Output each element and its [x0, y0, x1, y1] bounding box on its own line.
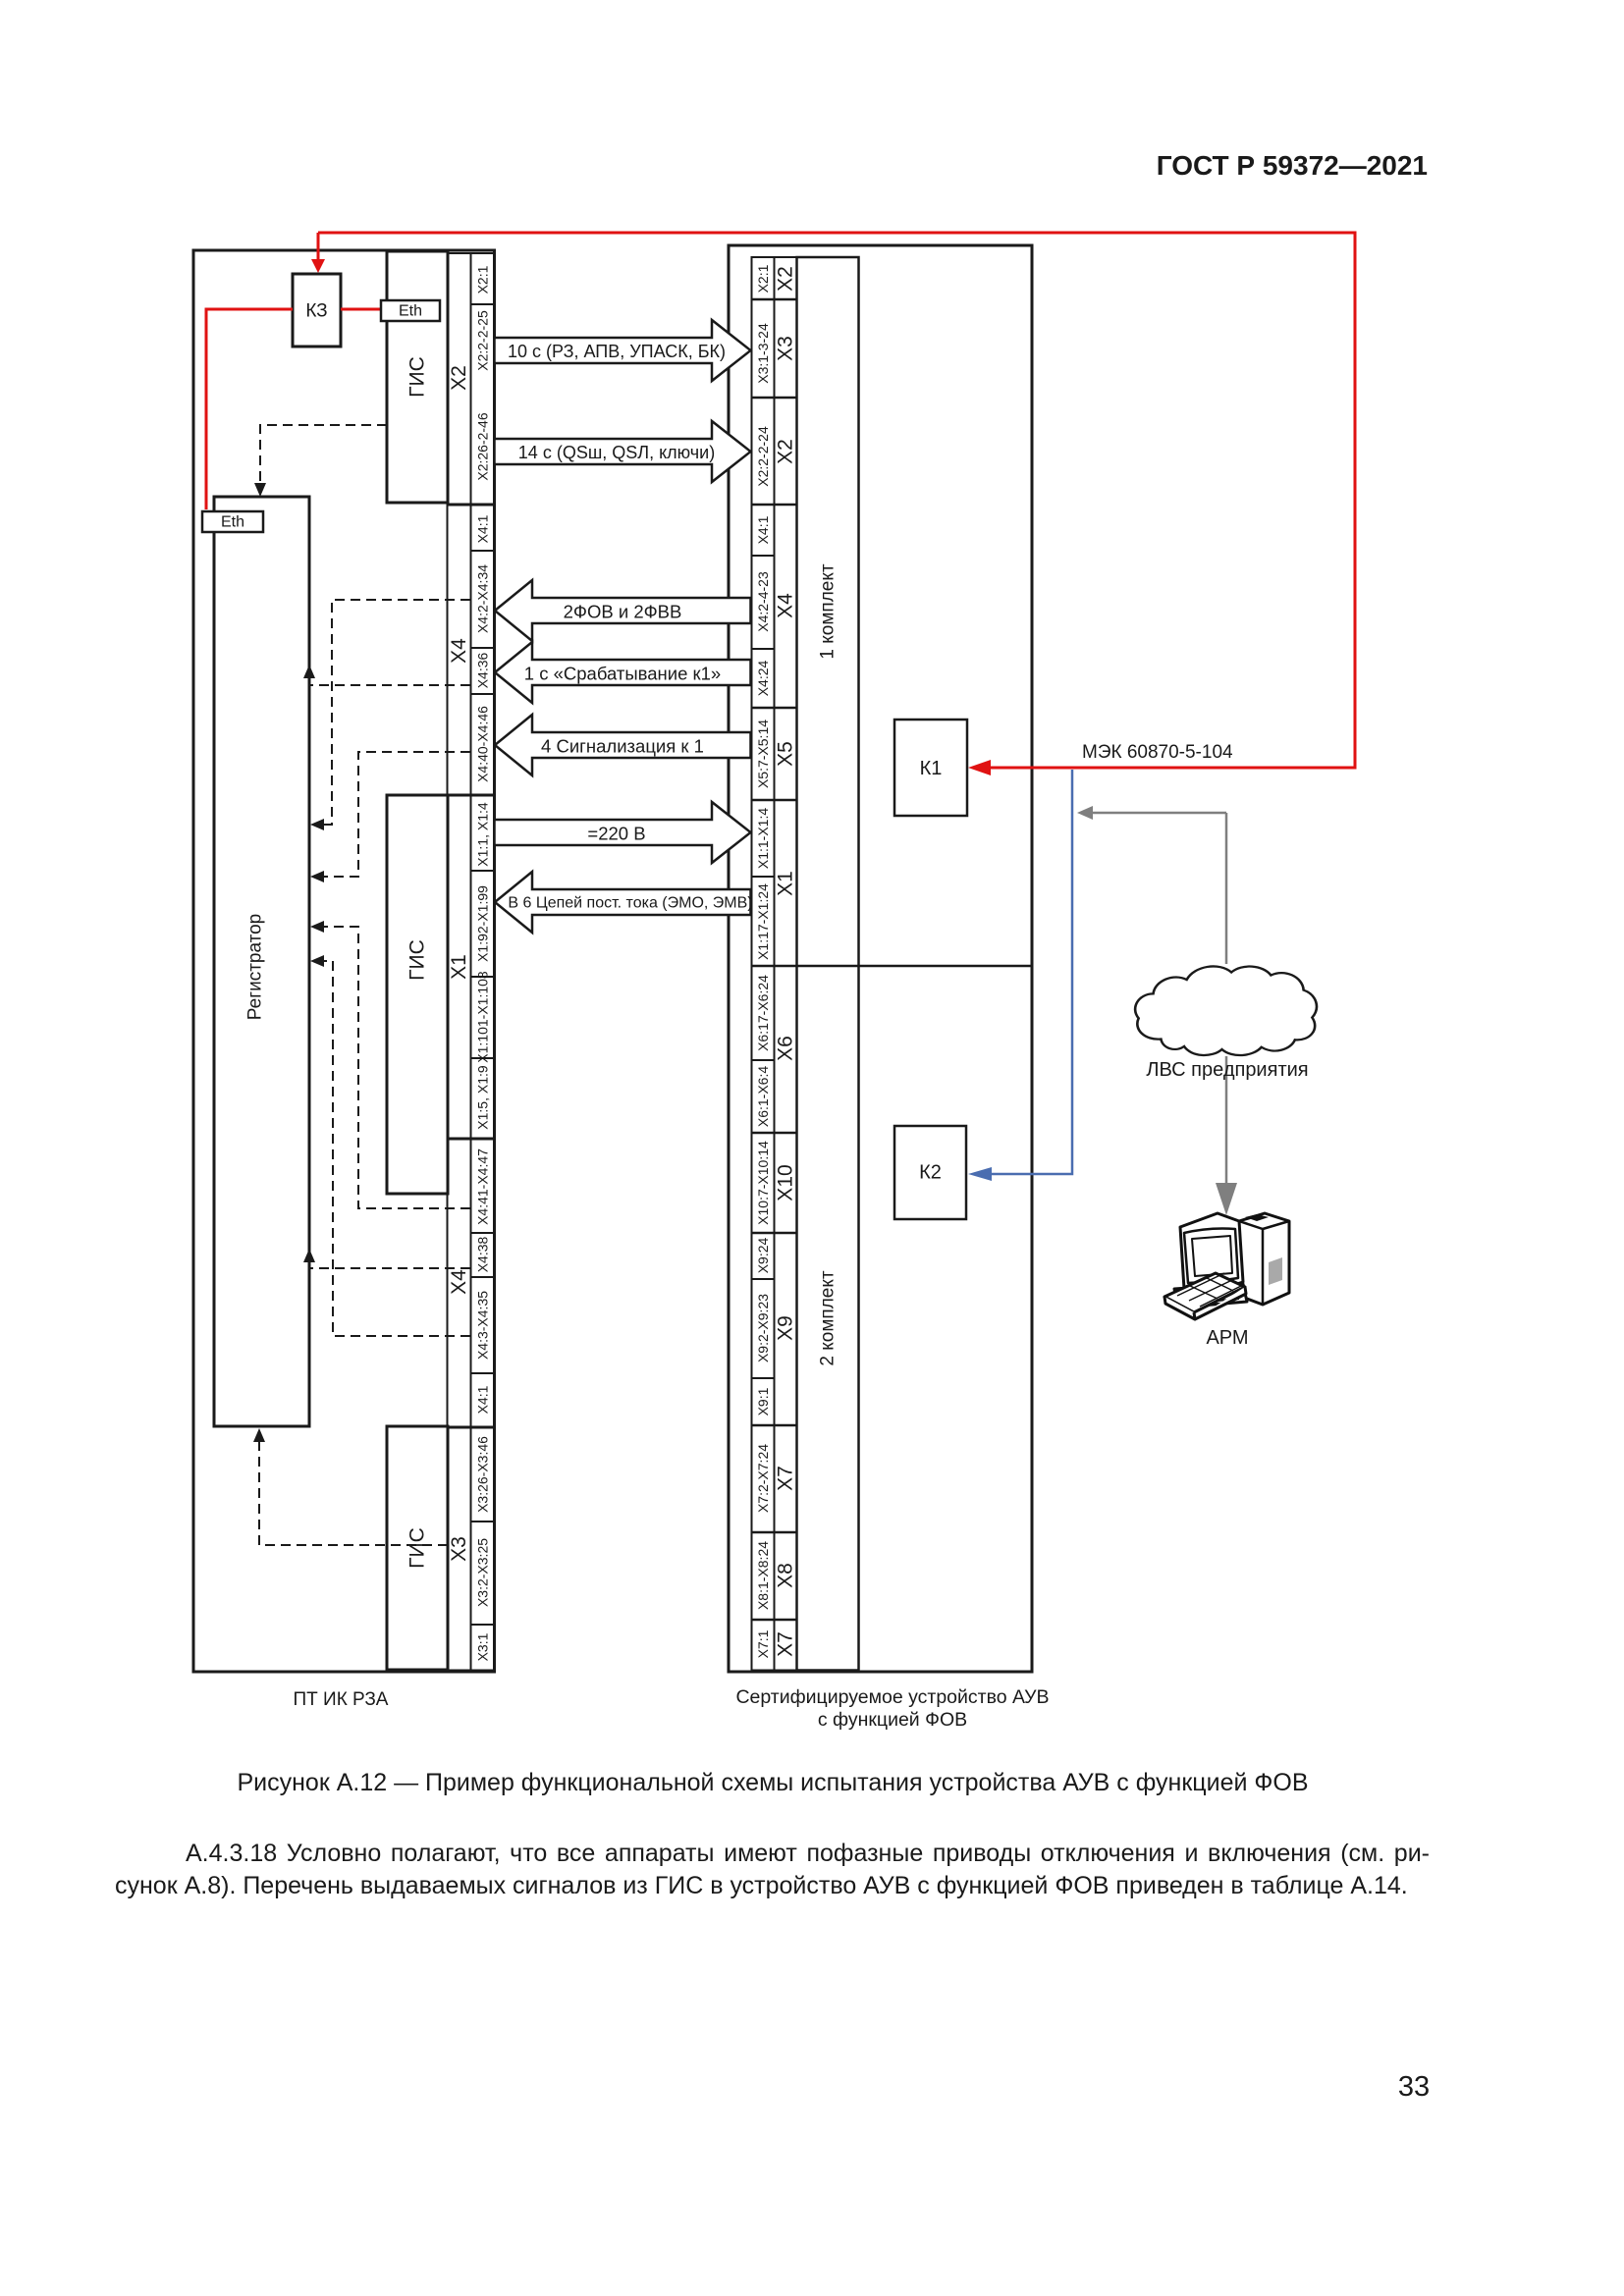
left connector-name column — [448, 253, 471, 1671]
svg-text:ГОСТ Р 59372—2021: ГОСТ Р 59372—2021 — [1157, 150, 1428, 181]
svg-text:X6: X6 — [775, 1036, 797, 1061]
blue wire to K2 — [992, 770, 1072, 1174]
svg-text:X2:26-2-46: X2:26-2-46 — [475, 412, 491, 480]
GIS X2 box — [387, 251, 448, 503]
svg-text:АРМ: АРМ — [1206, 1327, 1248, 1349]
arrow 10s RZ APV UPASK BK — [495, 320, 751, 381]
svg-text:X9:2-X9:23: X9:2-X9:23 — [755, 1294, 771, 1362]
svg-text:X1: X1 — [775, 871, 797, 896]
svg-text:X3: X3 — [448, 1536, 470, 1562]
svg-text:X4: X4 — [775, 593, 797, 618]
dashed wire X4:41-X4:47 to Registrator — [324, 927, 470, 1208]
svg-text:X4:2-4-23: X4:2-4-23 — [755, 571, 771, 632]
svg-text:X4:40-X4:46: X4:40-X4:46 — [475, 706, 491, 782]
svg-text:14 с (QSш, QSЛ, ключи): 14 с (QSш, QSЛ, ключи) — [518, 443, 715, 462]
svg-text:X7:2-X7:24: X7:2-X7:24 — [755, 1444, 771, 1513]
svg-text:X2: X2 — [448, 365, 470, 391]
svg-text:X3: X3 — [775, 336, 797, 361]
right pin column — [752, 257, 775, 1671]
svg-text:X4:1: X4:1 — [475, 514, 491, 543]
svg-text:Сертифицируемое устройство АУВ: Сертифицируемое устройство АУВ — [735, 1686, 1049, 1708]
komplekt column — [797, 257, 859, 1671]
red wire from top into KZ — [317, 233, 320, 261]
svg-text:X2: X2 — [775, 439, 797, 464]
svg-text:X9: X9 — [775, 1315, 797, 1341]
arrow =220 V — [495, 802, 751, 863]
arrow V 6 tsepei post toka — [495, 872, 751, 933]
svg-text:X1: X1 — [448, 954, 470, 980]
svg-text:с функцией ФОВ: с функцией ФОВ — [818, 1709, 967, 1731]
svg-text:X6:17-X6:24: X6:17-X6:24 — [755, 975, 771, 1051]
svg-text:4 Сигнализация к 1: 4 Сигнализация к 1 — [541, 736, 704, 757]
svg-text:X4:38: X4:38 — [475, 1236, 491, 1272]
svg-text:X4:36: X4:36 — [475, 652, 491, 688]
left pin column — [471, 253, 495, 1671]
svg-text:X5:7-X5:14: X5:7-X5:14 — [755, 720, 771, 788]
svg-text:X3:26-X3:46: X3:26-X3:46 — [475, 1436, 491, 1513]
right connector-name column — [775, 257, 797, 1671]
svg-text:X4:2-X4:34: X4:2-X4:34 — [475, 564, 491, 633]
left group divider lines — [448, 504, 495, 507]
svg-text:Eth: Eth — [399, 303, 422, 320]
arrow 14s QS — [495, 421, 751, 482]
dashed wire X4:38 to Registrator (up arrow) — [309, 1267, 470, 1269]
svg-text:X1:17-X1:24: X1:17-X1:24 — [755, 883, 771, 960]
KZ box — [293, 274, 341, 347]
svg-text:X3:1-3-24: X3:1-3-24 — [755, 323, 771, 384]
arrow 1s Srabatyvanie k1 — [495, 642, 751, 703]
arrow 4 Signalizaciya k 1 — [495, 715, 751, 775]
dashed wire X4:3-X4:35 to Registrator — [324, 961, 470, 1336]
GIS X1 box — [387, 795, 448, 1194]
svg-text:10 с (РЗ, АПВ, УПАСК, БК): 10 с (РЗ, АПВ, УПАСК, БК) — [508, 342, 726, 361]
svg-text:X7: X7 — [775, 1631, 797, 1657]
K2 box — [894, 1126, 966, 1219]
svg-text:В 6 Цепей пост. тока (ЭМО, ЭМВ: В 6 Цепей пост. тока (ЭМО, ЭМВ) — [508, 895, 752, 912]
svg-text:X4:24: X4:24 — [755, 660, 771, 696]
svg-text:X2:1: X2:1 — [755, 264, 771, 293]
svg-text:X7: X7 — [775, 1466, 797, 1491]
svg-text:X6:1-X6:4: X6:1-X6:4 — [755, 1066, 771, 1127]
svg-text:X1:1, X1:4: X1:1, X1:4 — [475, 802, 491, 867]
cloud LVS predpriyatiya — [1135, 966, 1317, 1055]
svg-text:ЛВС предприятия: ЛВС предприятия — [1146, 1059, 1308, 1081]
svg-text:X2:2-2-24: X2:2-2-24 — [755, 426, 771, 487]
svg-text:X9:1: X9:1 — [755, 1387, 771, 1415]
svg-text:X4: X4 — [448, 638, 470, 664]
svg-text:X4:1: X4:1 — [475, 1385, 491, 1414]
svg-text:ГИС: ГИС — [406, 1527, 429, 1569]
svg-text:1 комплект: 1 комплект — [818, 563, 839, 659]
svg-text:ГИС: ГИС — [406, 356, 429, 398]
GIS X3 box — [387, 1426, 448, 1670]
svg-text:33: 33 — [1398, 2071, 1430, 2103]
right group divider lines — [752, 298, 797, 301]
dashed wire X4:2-X4:34 to Registrator — [324, 600, 470, 825]
svg-text:X10:7-X10:14: X10:7-X10:14 — [755, 1141, 771, 1225]
svg-text:X2:2-2-25: X2:2-2-25 — [475, 310, 491, 371]
Eth box top — [381, 300, 440, 321]
svg-text:X4:41-X4:47: X4:41-X4:47 — [475, 1148, 491, 1225]
dashed wire X4:36 to Registrator (up arrow) — [309, 684, 470, 686]
arrow 2FOV i 2FVV — [495, 580, 751, 641]
svg-text:X1:101-X1:108: X1:101-X1:108 — [475, 971, 491, 1063]
red wire KZ left to Eth2 — [206, 309, 293, 509]
right device box (certified AUV device) — [729, 245, 1032, 1672]
svg-text:К1: К1 — [920, 758, 943, 779]
ARM computer icon — [1164, 1213, 1289, 1319]
svg-text:Eth: Eth — [221, 514, 244, 531]
svg-text:X2: X2 — [775, 266, 797, 292]
svg-text:X8:1-X8:24: X8:1-X8:24 — [755, 1541, 771, 1610]
dashed wire X4:40-X4:46 to Registrator — [324, 752, 470, 877]
svg-text:КЗ: КЗ — [305, 301, 327, 322]
left device box ПТ ИК РЗА — [193, 250, 495, 1672]
gray wire cloud to blue line — [1092, 812, 1226, 815]
Eth box left — [202, 511, 263, 532]
red wire KZ right to Eth1 — [341, 308, 381, 311]
svg-text:X5: X5 — [775, 741, 797, 767]
svg-text:Рисунок А.12 — Пример функцион: Рисунок А.12 — Пример функциональной схе… — [237, 1769, 1308, 1796]
svg-text:X4: X4 — [448, 1269, 470, 1295]
svg-text:X1:5, X1:9: X1:5, X1:9 — [475, 1065, 491, 1130]
K1 box — [894, 720, 967, 816]
dashed wire GIS X2 to Registrator top — [260, 425, 387, 489]
svg-text:X1:1-X1:4: X1:1-X1:4 — [755, 808, 771, 869]
svg-text:2 комплект: 2 комплект — [818, 1270, 839, 1365]
svg-text:X3:1: X3:1 — [475, 1632, 491, 1661]
svg-text:X2:1: X2:1 — [475, 265, 491, 294]
svg-text:1 с «Срабатывание к1»: 1 с «Срабатывание к1» — [524, 664, 721, 684]
svg-text:X4:1: X4:1 — [755, 515, 771, 544]
svg-text:X10: X10 — [775, 1164, 797, 1201]
svg-text:ГИС: ГИС — [406, 939, 429, 981]
svg-text:X7:1: X7:1 — [755, 1629, 771, 1658]
svg-text:X9:24: X9:24 — [755, 1237, 771, 1273]
svg-text:2ФОВ и 2ФВВ: 2ФОВ и 2ФВВ — [564, 602, 682, 622]
svg-text:К2: К2 — [919, 1162, 942, 1184]
svg-text:X8: X8 — [775, 1563, 797, 1588]
svg-text:X4:3-X4:35: X4:3-X4:35 — [475, 1291, 491, 1360]
svg-text:Регистратор: Регистратор — [245, 914, 266, 1021]
svg-text:=220 В: =220 В — [587, 824, 645, 844]
Registrator box — [214, 497, 309, 1426]
svg-text:X1:92-X1:99: X1:92-X1:99 — [475, 885, 491, 962]
gray wire down to cloud — [1225, 813, 1228, 964]
dashed wire X3 GIS to Registrator bottom — [259, 1437, 448, 1545]
gray wire cloud to ARM computer — [1225, 1056, 1228, 1183]
red wire top horizontal and down right side to K1 — [318, 233, 1355, 768]
svg-text:X3:2-X3:25: X3:2-X3:25 — [475, 1538, 491, 1607]
left pin cell dividers — [471, 303, 495, 305]
svg-text:МЭК 60870-5-104: МЭК 60870-5-104 — [1082, 742, 1233, 763]
divider between komplekt 1 and 2 — [752, 965, 1033, 968]
right pin cell dividers — [752, 555, 775, 557]
svg-text:ПТ ИК РЗА: ПТ ИК РЗА — [294, 1689, 389, 1710]
